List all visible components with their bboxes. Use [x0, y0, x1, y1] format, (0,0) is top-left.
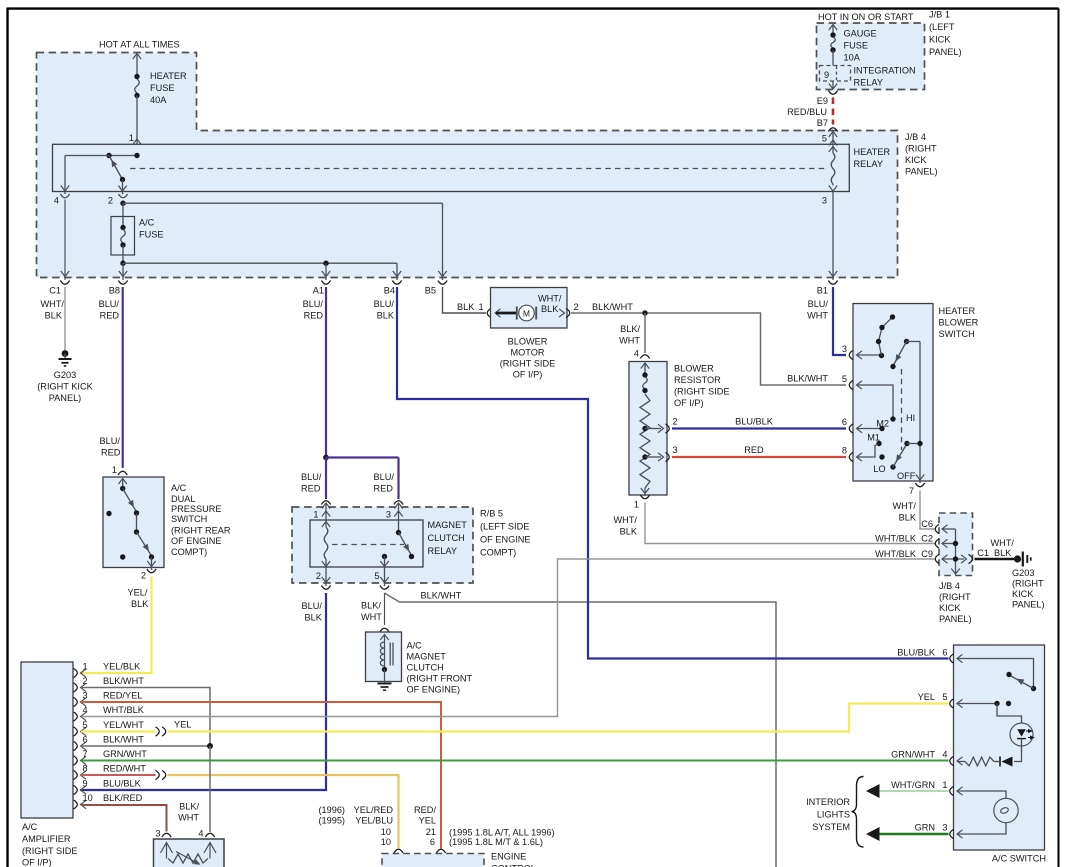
svg-text:A/C: A/C: [407, 641, 423, 651]
svg-text:WHT/: WHT/: [893, 501, 917, 511]
heater relay box: [53, 144, 850, 191]
wire BLK B5 to blower motor: [443, 287, 487, 313]
amplifier pin 2: [74, 683, 78, 692]
wire RED resistor to switch pin 8: [672, 456, 846, 458]
LED feed: [997, 704, 1022, 724]
J/B 4 junction block dashed region with HOT AT ALL TIMES feed: [37, 53, 898, 278]
svg-text:5: 5: [842, 374, 847, 384]
wire BLU/WHT B1 to blower switch pin 3: [833, 287, 846, 355]
amplifier pin 7: [74, 756, 78, 765]
svg-text:BLK: BLK: [457, 302, 475, 312]
wire WHT/BLK switch pin7 to J/B4 C6: [920, 491, 935, 530]
svg-text:OF ENGINE): OF ENGINE): [407, 685, 461, 695]
svg-text:(RIGHT: (RIGHT: [905, 144, 937, 154]
svg-text:WHT/GRN: WHT/GRN: [891, 780, 935, 790]
svg-text:OF I/P): OF I/P): [674, 398, 704, 408]
border frame: [6, 9, 8, 867]
relay pin 3: [394, 501, 403, 505]
wire WHT/GRN to interior lights: [871, 790, 949, 792]
svg-text:ENGINE: ENGINE: [491, 852, 526, 862]
heater blower switch box: [853, 304, 933, 482]
svg-text:4: 4: [54, 196, 59, 206]
svg-text:5: 5: [942, 692, 947, 702]
wire YEL/BLK pressure switch to amplifier pin 1: [80, 577, 152, 674]
wire YEL/RED-YEL/BLU to ECM pin 10: [168, 775, 399, 849]
svg-text:KICK: KICK: [929, 35, 951, 45]
svg-text:WHT/: WHT/: [538, 294, 562, 304]
svg-text:BLK/WHT: BLK/WHT: [787, 374, 828, 384]
relay actuation dashed link: [130, 168, 827, 170]
svg-text:KICK: KICK: [939, 603, 961, 613]
svg-text:6: 6: [942, 648, 947, 658]
svg-text:RED/: RED/: [414, 805, 436, 815]
relay coil: [322, 522, 330, 528]
svg-text:YEL: YEL: [918, 692, 935, 702]
svg-text:BLK/WHT: BLK/WHT: [103, 676, 144, 686]
svg-text:WHT/: WHT/: [991, 538, 1015, 548]
svg-text:J/B 4: J/B 4: [939, 581, 960, 591]
wire BLK/WHT relay pin5 to magnet clutch: [384, 593, 386, 625]
wire pin5 YEL/WHT: [81, 730, 156, 732]
wire RED/BLU (E9 to B7): [832, 98, 835, 125]
relay contact: [398, 504, 400, 531]
blower motor: [487, 308, 491, 317]
svg-text:WHT: WHT: [361, 612, 382, 622]
wire BLK/WHT motor to blower switch pin 5: [571, 313, 846, 385]
svg-text:OF ENGINE: OF ENGINE: [480, 535, 531, 545]
A/C amplifier box: [21, 662, 73, 818]
resistor tap 3: [645, 456, 661, 458]
svg-text:3: 3: [942, 823, 947, 833]
resistor element: [640, 394, 650, 488]
svg-text:J/B 1: J/B 1: [929, 10, 950, 20]
svg-text:BLK/: BLK/: [361, 601, 381, 611]
gauge fuse 10A: [829, 25, 837, 31]
amplifier pin 8: [74, 770, 78, 779]
ground at magnet clutch: [378, 683, 392, 685]
svg-text:C2: C2: [921, 534, 933, 544]
svg-text:BLU/: BLU/: [374, 299, 395, 309]
svg-text:6: 6: [83, 735, 88, 745]
svg-text:MAGNET: MAGNET: [407, 652, 447, 662]
svg-text:LO: LO: [873, 464, 885, 474]
svg-text:YEL/: YEL/: [128, 588, 148, 598]
svg-text:RELAY: RELAY: [428, 546, 457, 556]
svg-text:WHT/BLK: WHT/BLK: [875, 534, 917, 544]
connector ECM pin 21/6: [436, 849, 445, 853]
svg-text:(LEFT SIDE: (LEFT SIDE: [480, 522, 529, 532]
svg-text:RED: RED: [101, 448, 121, 458]
svg-text:HI: HI: [906, 413, 915, 423]
wire BLK/WHT to blower resistor pin 4: [644, 313, 646, 353]
svg-text:RESISTOR: RESISTOR: [674, 375, 721, 385]
svg-text:KICK: KICK: [905, 155, 927, 165]
svg-text:7: 7: [909, 486, 914, 496]
sensor resistor element: [168, 854, 208, 863]
svg-text:COMPT): COMPT): [480, 548, 516, 558]
svg-text:C6: C6: [921, 519, 933, 529]
relay pin 1: [321, 501, 330, 505]
svg-text:7: 7: [83, 749, 88, 759]
svg-text:10: 10: [381, 837, 391, 847]
svg-text:3: 3: [822, 196, 827, 206]
svg-text:1: 1: [313, 510, 318, 520]
svg-text:B4: B4: [384, 286, 395, 296]
svg-text:R/B 5: R/B 5: [480, 509, 503, 519]
svg-text:OF ENGINE: OF ENGINE: [171, 536, 222, 546]
LED indicator: [1010, 723, 1033, 746]
svg-text:3: 3: [673, 445, 678, 455]
svg-text:(RIGHT: (RIGHT: [939, 592, 971, 602]
svg-text:5: 5: [374, 571, 379, 581]
svg-text:B1: B1: [817, 286, 828, 296]
wire YEL to A/C switch pin 5: [168, 704, 949, 732]
wire pin6 BLK/WHT: [81, 745, 210, 747]
svg-text:CLUTCH: CLUTCH: [428, 533, 465, 543]
connector B1: [828, 281, 837, 285]
svg-text:MOTOR: MOTOR: [510, 348, 544, 358]
svg-text:A/C SWITCH: A/C SWITCH: [992, 854, 1046, 864]
svg-text:HOT IN ON OR START: HOT IN ON OR START: [818, 12, 914, 22]
svg-text:40A: 40A: [150, 95, 167, 105]
svg-text:GRN/WHT: GRN/WHT: [891, 750, 935, 760]
svg-text:BLK: BLK: [305, 613, 323, 623]
resistor tap 2: [645, 428, 661, 430]
svg-text:2: 2: [673, 417, 678, 427]
amplifier pin 4: [74, 712, 78, 721]
ground G203 (left): [62, 350, 69, 357]
integration relay (pin 9): [820, 66, 851, 82]
svg-text:C9: C9: [921, 549, 933, 559]
svg-text:PANEL): PANEL): [1012, 600, 1045, 610]
svg-text:BLOWER: BLOWER: [508, 337, 548, 347]
svg-text:1: 1: [112, 465, 117, 475]
svg-text:3: 3: [386, 510, 391, 520]
svg-text:(RIGHT SIDE: (RIGHT SIDE: [674, 387, 729, 397]
sensor box (cut off): [154, 839, 225, 867]
svg-text:BLU/BLK: BLU/BLK: [897, 648, 936, 658]
amplifier pin 1: [74, 668, 78, 677]
svg-text:YEL/BLU: YEL/BLU: [355, 816, 393, 826]
svg-text:PRESSURE: PRESSURE: [171, 504, 222, 514]
svg-text:DUAL: DUAL: [171, 494, 196, 504]
svg-text:YEL: YEL: [174, 720, 191, 730]
svg-text:6: 6: [430, 837, 435, 847]
switch pin 7 exit: [916, 475, 924, 481]
svg-text:CONTROL: CONTROL: [491, 864, 536, 867]
svg-text:(1995 1.8L A/T, ALL 1996): (1995 1.8L A/T, ALL 1996): [449, 828, 555, 838]
svg-text:9: 9: [83, 779, 88, 789]
svg-text:B7: B7: [817, 118, 828, 128]
wire BLK/WHT down to sensor: [209, 746, 211, 832]
J/B4 internal bus: [955, 529, 957, 574]
J/B 4 small block (right kick panel): [939, 513, 973, 576]
amplifier pin 5: [74, 727, 78, 736]
svg-text:1: 1: [83, 662, 88, 672]
svg-text:10: 10: [381, 827, 391, 837]
svg-text:1: 1: [479, 302, 484, 312]
svg-text:RED: RED: [744, 445, 764, 455]
svg-text:(1995 1.8L M/T & 1.6L): (1995 1.8L M/T & 1.6L): [449, 837, 543, 847]
svg-text:GAUGE: GAUGE: [844, 29, 877, 39]
wire relay pin3 to B1: [832, 192, 834, 281]
svg-text:HEATER: HEATER: [939, 306, 976, 316]
svg-text:21: 21: [426, 827, 436, 837]
svg-text:RED: RED: [100, 311, 120, 321]
node blower resistor feed: [642, 310, 647, 315]
svg-text:2: 2: [574, 302, 579, 312]
svg-text:BLU/: BLU/: [301, 472, 322, 482]
svg-text:4: 4: [634, 349, 639, 359]
A1 drop: [325, 263, 327, 280]
heater relay contact: [109, 155, 137, 157]
svg-text:2: 2: [141, 571, 146, 581]
svg-text:3: 3: [842, 344, 847, 354]
connector E9: [828, 91, 837, 95]
svg-text:3: 3: [83, 691, 88, 701]
amplifier pin 3: [74, 697, 78, 706]
internal resistor: [965, 757, 994, 766]
svg-text:5: 5: [83, 720, 88, 730]
svg-text:BLK/RED: BLK/RED: [103, 793, 143, 803]
svg-text:SYSTEM: SYSTEM: [812, 822, 850, 832]
B8 drop: [122, 263, 124, 280]
svg-text:BLK: BLK: [541, 304, 559, 314]
brace: [852, 777, 864, 848]
wire BLU/BLK resistor to switch pin 6: [672, 427, 846, 429]
svg-text:INTERIOR: INTERIOR: [806, 797, 850, 807]
relay link dashed: [332, 544, 404, 546]
svg-text:BLK/: BLK/: [620, 324, 640, 334]
svg-text:4: 4: [198, 829, 203, 839]
A/C fuse output bus: [120, 261, 125, 266]
node A1 junction: [323, 261, 328, 266]
svg-text:COMPT): COMPT): [171, 547, 207, 557]
svg-text:HEATER: HEATER: [854, 147, 891, 157]
svg-text:HEATER: HEATER: [150, 71, 187, 81]
svg-text:PANEL): PANEL): [939, 614, 972, 624]
LED to diode/resistor: [1014, 746, 1022, 762]
relay pin 5 exit: [380, 577, 388, 583]
svg-text:FUSE: FUSE: [139, 230, 164, 240]
svg-text:E9: E9: [817, 96, 828, 106]
R/B 5 dashed box: [292, 507, 473, 583]
switch OFF wiper: [890, 464, 895, 469]
svg-text:1: 1: [129, 133, 134, 143]
heater fuse 40A: [133, 54, 141, 60]
svg-text:BLK: BLK: [994, 548, 1012, 558]
A/C switch wiper: [1009, 675, 1034, 689]
wire WHT/BLK to G203: [64, 287, 66, 350]
svg-text:FUSE: FUSE: [844, 41, 869, 51]
svg-text:RELAY: RELAY: [854, 159, 883, 169]
svg-text:(1996): (1996): [318, 805, 345, 815]
svg-text:WHT: WHT: [619, 336, 640, 346]
A/C magnet clutch: [380, 628, 389, 632]
svg-text:OF I/P): OF I/P): [22, 858, 52, 867]
svg-text:INTEGRATION: INTEGRATION: [854, 66, 916, 76]
engine control module box (cut off): [382, 854, 484, 867]
svg-text:KICK: KICK: [1012, 589, 1034, 599]
svg-text:G203: G203: [54, 370, 76, 380]
svg-text:6: 6: [842, 417, 847, 427]
svg-text:BLK/WHT: BLK/WHT: [592, 302, 633, 312]
svg-text:WHT/BLK: WHT/BLK: [103, 705, 145, 715]
svg-text:RED/BLU: RED/BLU: [787, 107, 827, 117]
svg-text:YEL/WHT: YEL/WHT: [103, 720, 144, 730]
svg-text:BLU/: BLU/: [808, 299, 829, 309]
wire pin8 RED/WHT: [81, 774, 156, 776]
wire BLU/RED B8 to A/C dual pressure switch: [122, 287, 124, 468]
svg-text:BLK: BLK: [899, 513, 917, 523]
amplifier pin 6: [74, 741, 78, 750]
svg-text:GRN/WHT: GRN/WHT: [103, 749, 147, 759]
svg-text:10A: 10A: [844, 53, 861, 63]
svg-text:(RIGHT: (RIGHT: [1012, 579, 1044, 589]
svg-text:BLU/: BLU/: [99, 299, 120, 309]
lamp: [994, 798, 1018, 822]
svg-text:J/B 4: J/B 4: [905, 132, 926, 142]
svg-text:BLK/WHT: BLK/WHT: [421, 591, 462, 601]
blower resistor box: [629, 362, 667, 496]
svg-text:RED: RED: [374, 484, 394, 494]
svg-text:BLU/: BLU/: [374, 472, 395, 482]
svg-text:(RIGHT SIDE: (RIGHT SIDE: [500, 359, 555, 369]
svg-text:A/C: A/C: [22, 822, 38, 832]
svg-text:SWITCH: SWITCH: [939, 329, 975, 339]
svg-text:YEL: YEL: [419, 816, 436, 826]
svg-text:G203: G203: [1012, 568, 1034, 578]
svg-text:A/C: A/C: [139, 218, 155, 228]
svg-text:M: M: [523, 308, 530, 318]
svg-text:5: 5: [822, 134, 827, 144]
svg-text:GRN: GRN: [915, 823, 935, 833]
svg-text:2: 2: [108, 196, 113, 206]
wire BLK C1 to G203: [975, 558, 1015, 560]
rotary contact chain: [879, 317, 893, 356]
svg-text:MAGNET: MAGNET: [428, 520, 468, 530]
svg-text:1: 1: [634, 500, 639, 510]
svg-text:10: 10: [83, 793, 93, 803]
svg-text:RED: RED: [304, 311, 324, 321]
diode: [1002, 757, 1013, 767]
svg-text:(RIGHT SIDE: (RIGHT SIDE: [22, 846, 77, 856]
svg-text:BLK: BLK: [131, 599, 149, 609]
connector C1: [60, 281, 69, 285]
magnet clutch relay box: [310, 520, 423, 567]
svg-text:BLU/: BLU/: [303, 299, 324, 309]
svg-text:PANEL): PANEL): [49, 393, 82, 403]
svg-text:B5: B5: [425, 286, 436, 296]
svg-text:BLK: BLK: [620, 527, 638, 537]
wire GRN to interior lights: [871, 833, 949, 836]
svg-text:FUSE: FUSE: [150, 83, 175, 93]
wire WHT/BLK resistor to J/B4 C2: [645, 503, 935, 544]
svg-text:1: 1: [942, 780, 947, 790]
svg-text:BLK/: BLK/: [179, 802, 199, 812]
svg-text:WHT/: WHT/: [41, 299, 65, 309]
svg-text:RELAY: RELAY: [854, 78, 883, 88]
svg-text:BLOWER: BLOWER: [674, 364, 714, 374]
B4 drop: [396, 263, 398, 280]
svg-text:4: 4: [942, 750, 947, 760]
svg-text:3: 3: [155, 829, 160, 839]
svg-text:BLK: BLK: [377, 311, 395, 321]
B5 drop: [442, 203, 444, 280]
wire pin4 WHT/BLK to J/B4 C9: [81, 559, 935, 717]
svg-text:A1: A1: [313, 286, 324, 296]
connector ECM pin 10: [394, 849, 403, 853]
wire pin2 to B5 drop: [123, 202, 443, 204]
amplifier pin 9: [74, 785, 78, 794]
svg-text:CLUTCH: CLUTCH: [407, 663, 444, 673]
svg-text:C1: C1: [49, 286, 61, 296]
A/C fuse: [122, 203, 124, 226]
svg-text:YEL/BLK: YEL/BLK: [103, 662, 141, 672]
svg-text:BLOWER: BLOWER: [939, 318, 979, 328]
svg-text:(RIGHT KICK: (RIGHT KICK: [37, 382, 93, 392]
wire pin2 BLK/WHT: [81, 688, 210, 746]
svg-text:RED/YEL: RED/YEL: [103, 691, 142, 701]
wire pin7 GRN/WHT to A/C switch pin 4: [81, 760, 949, 762]
svg-text:WHT: WHT: [807, 311, 828, 321]
svg-text:AMPLIFIER: AMPLIFIER: [22, 834, 71, 844]
switch wiper upper: [904, 339, 909, 344]
svg-text:LIGHTS: LIGHTS: [817, 810, 850, 820]
wire BLU/BLK B4 to A/C switch pin 6: [397, 287, 949, 659]
resistor pin 1 exit: [640, 495, 649, 499]
svg-text:WHT/BLK: WHT/BLK: [875, 549, 917, 559]
svg-text:YEL/RED: YEL/RED: [354, 805, 394, 815]
svg-text:WHT: WHT: [178, 813, 199, 823]
svg-text:BLU/: BLU/: [100, 436, 121, 446]
svg-text:2: 2: [83, 676, 88, 686]
svg-text:PANEL): PANEL): [929, 47, 962, 57]
svg-text:(1995): (1995): [318, 816, 345, 826]
ground G203 (right): [1014, 555, 1021, 562]
A/C switch box: [954, 645, 1045, 850]
svg-text:8: 8: [83, 764, 88, 774]
svg-text:BLU/: BLU/: [302, 601, 323, 611]
svg-text:A/C: A/C: [171, 483, 187, 493]
svg-text:WHT/: WHT/: [614, 515, 638, 525]
wire BLU/BLK relay pin2 to amplifier pin 9: [80, 593, 326, 790]
splice connectors: [156, 727, 160, 736]
svg-text:9: 9: [824, 70, 829, 80]
svg-text:OFF: OFF: [897, 471, 916, 481]
svg-text:OF I/P): OF I/P): [513, 370, 543, 380]
svg-text:B8: B8: [109, 286, 120, 296]
svg-text:BLK/WHT: BLK/WHT: [103, 735, 144, 745]
svg-text:2: 2: [316, 571, 321, 581]
svg-text:RED/WHT: RED/WHT: [103, 764, 146, 774]
svg-text:(RIGHT REAR: (RIGHT REAR: [171, 526, 231, 536]
svg-text:8: 8: [842, 446, 847, 456]
svg-text:SWITCH: SWITCH: [171, 514, 207, 524]
wire BLK/WHT relay pin5 to ECM: [385, 593, 777, 867]
svg-text:(RIGHT FRONT: (RIGHT FRONT: [407, 674, 473, 684]
svg-text:4: 4: [83, 705, 88, 715]
wire pin10 BLK/RED: [81, 805, 167, 832]
switch HI bus: [919, 342, 921, 484]
svg-text:PANEL): PANEL): [905, 167, 938, 177]
svg-text:(LEFT: (LEFT: [929, 22, 955, 32]
relay pin 2 exit: [322, 577, 330, 583]
svg-text:BLU/BLK: BLU/BLK: [103, 779, 142, 789]
connector C1 out: [961, 555, 967, 563]
svg-text:BLU/BLK: BLU/BLK: [735, 417, 774, 427]
wire pin3 RED/YEL to ECM pin 21/6: [81, 702, 441, 849]
